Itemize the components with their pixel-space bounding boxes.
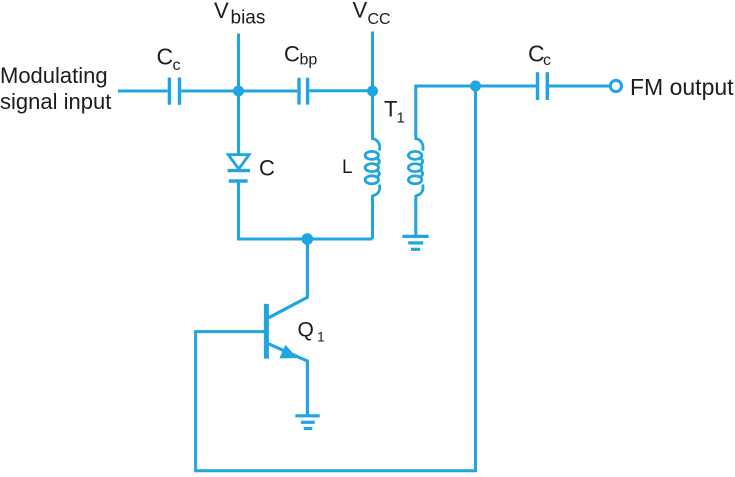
varactor capacitor plate [229, 179, 248, 182]
svg-text:c: c [543, 52, 551, 69]
transistor Q1 base bar [264, 304, 269, 359]
wire output node to Cc2 [476, 85, 537, 88]
svg-text:CC: CC [368, 11, 391, 28]
capacitor C_c (input coupling) [169, 78, 179, 105]
wire Cbp to Vcc node [309, 89, 372, 92]
svg-text:Q: Q [298, 319, 314, 342]
label Cbp [284, 42, 317, 69]
label Cc (input) [157, 44, 181, 75]
emitter arrow [281, 346, 296, 357]
transformer T1 secondary coil [408, 139, 423, 196]
inductor L (transformer primary) [365, 139, 380, 196]
label Vcc [353, 0, 391, 28]
wire secondary top to output node [416, 86, 476, 140]
wire Cc2 to output terminal [549, 85, 610, 88]
transistor Q1 collector lead [269, 239, 308, 318]
wire Vbias supply lead [237, 34, 240, 155]
capacitor C_c (output coupling) [538, 72, 548, 100]
svg-text:1: 1 [317, 329, 325, 345]
svg-text:bp: bp [300, 52, 318, 69]
wire coil L to bottom rail [371, 195, 374, 239]
svg-text:signal input: signal input [0, 89, 111, 114]
wire Vcc supply lead [371, 32, 374, 141]
capacitor C_bp (bypass) [299, 78, 308, 105]
transistor Q1 emitter lead [269, 344, 308, 416]
svg-text:L: L [342, 157, 353, 178]
svg-text:T: T [384, 97, 397, 122]
wire Cc to Vbias node [181, 90, 238, 93]
svg-text:C: C [157, 44, 174, 70]
svg-text:bias: bias [231, 8, 266, 29]
label Modulating signal input [0, 63, 111, 114]
wire node to Cbp left plate [239, 90, 298, 93]
node C: bottom rail / collector junction [302, 233, 314, 245]
wire secondary bottom to ground [414, 195, 417, 235]
output terminal (open circle) [610, 80, 621, 91]
svg-text:1: 1 [397, 110, 405, 127]
svg-text:C: C [284, 42, 300, 67]
label Cc (output) [528, 41, 551, 70]
label Q1 [298, 319, 326, 345]
svg-text:C: C [259, 156, 275, 181]
svg-text:Modulating: Modulating [0, 63, 108, 88]
wire input to Cc left plate [118, 90, 168, 93]
ground (emitter) [295, 416, 319, 429]
ground (secondary) [402, 236, 428, 249]
wire varactor to bottom rail [237, 183, 240, 239]
svg-text:V: V [353, 0, 368, 23]
node A: input / Vbias junction [233, 86, 244, 97]
label Vbias [214, 0, 265, 29]
varactor diode D (triangle) [228, 155, 249, 169]
wire feedback: right drop, bottom run, left rise to base [196, 86, 476, 471]
node B: Cbp / Vcc junction [367, 86, 378, 97]
svg-text:FM output: FM output [630, 74, 734, 100]
label T1 [384, 97, 405, 127]
svg-text:c: c [173, 57, 181, 74]
varactor cathode bar [228, 169, 250, 172]
wire bottom rail (diode to coil L) [237, 238, 373, 241]
svg-text:V: V [214, 0, 229, 23]
node D: output junction [470, 81, 481, 92]
